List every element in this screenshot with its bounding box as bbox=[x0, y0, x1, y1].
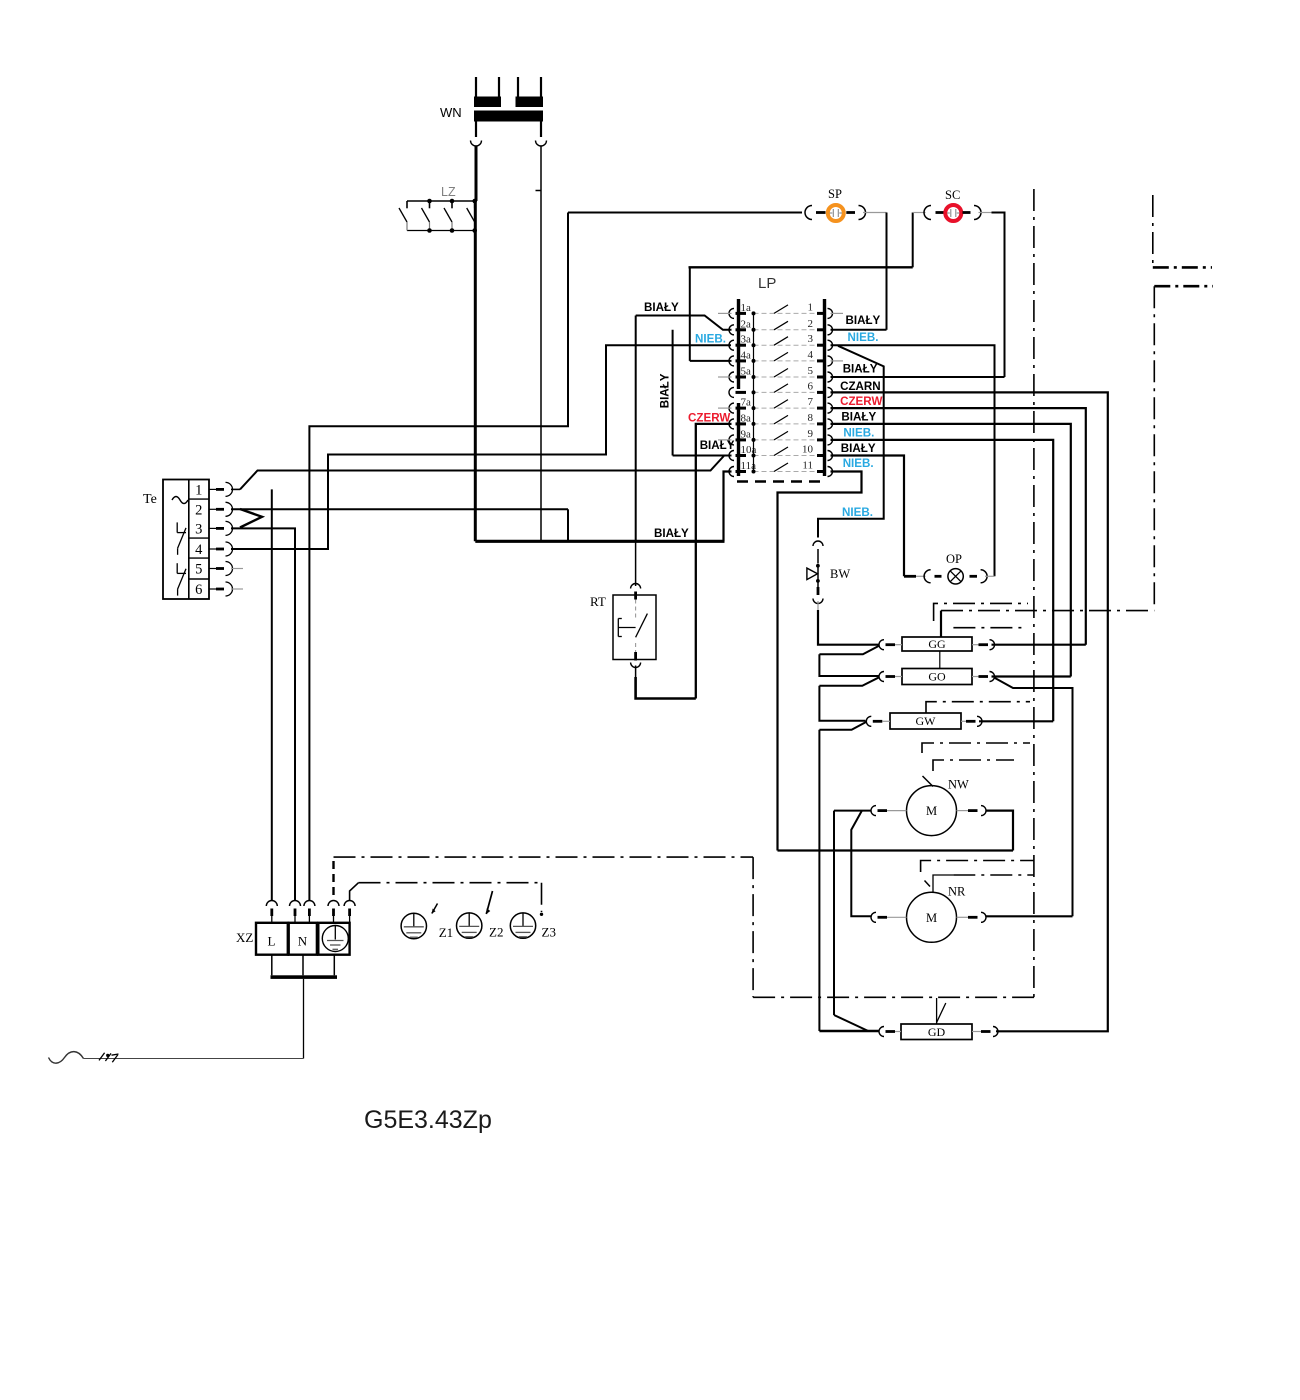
svg-text:11: 11 bbox=[802, 460, 813, 472]
svg-text:GO: GO bbox=[928, 670, 946, 684]
svg-text:G5E3.43Zp: G5E3.43Zp bbox=[364, 1106, 492, 1134]
svg-text:NR: NR bbox=[948, 885, 966, 899]
svg-text:BIAŁY: BIAŁY bbox=[843, 363, 878, 376]
svg-text:3: 3 bbox=[808, 333, 814, 345]
svg-text:Te: Te bbox=[143, 492, 157, 507]
svg-text:1a: 1a bbox=[741, 302, 752, 314]
svg-text:2a: 2a bbox=[741, 318, 752, 330]
svg-text:3: 3 bbox=[195, 521, 202, 537]
svg-text:M: M bbox=[926, 911, 937, 925]
svg-text:2: 2 bbox=[195, 502, 202, 518]
svg-text:BIAŁY: BIAŁY bbox=[846, 314, 881, 327]
svg-text:BIAŁY: BIAŁY bbox=[654, 527, 689, 540]
svg-text:CZERW: CZERW bbox=[840, 395, 882, 408]
svg-text:BIAŁY: BIAŁY bbox=[658, 373, 671, 408]
svg-text:7a: 7a bbox=[741, 397, 752, 409]
svg-text:SC: SC bbox=[945, 188, 960, 202]
svg-text:Z2: Z2 bbox=[489, 925, 503, 940]
svg-text:WN: WN bbox=[440, 105, 462, 120]
svg-text:BIAŁY: BIAŁY bbox=[644, 301, 679, 314]
svg-text:LP: LP bbox=[758, 275, 776, 292]
svg-text:9a: 9a bbox=[741, 428, 752, 440]
svg-text:N: N bbox=[298, 934, 308, 949]
svg-text:3a: 3a bbox=[741, 334, 752, 346]
svg-text:4: 4 bbox=[808, 349, 814, 361]
svg-text:CZERW: CZERW bbox=[688, 412, 730, 425]
svg-text:5: 5 bbox=[808, 365, 814, 377]
svg-text:1: 1 bbox=[808, 301, 814, 313]
svg-text:OP: OP bbox=[946, 552, 962, 566]
svg-text:NW: NW bbox=[948, 778, 969, 792]
svg-text:6: 6 bbox=[808, 380, 814, 392]
svg-text:NIEB.: NIEB. bbox=[843, 457, 874, 470]
svg-text:SP: SP bbox=[828, 187, 842, 201]
svg-text:L: L bbox=[268, 934, 276, 949]
svg-text:Z1: Z1 bbox=[439, 925, 453, 940]
svg-text:NIEB.: NIEB. bbox=[842, 506, 873, 519]
svg-text:8a: 8a bbox=[741, 412, 752, 424]
svg-text:5: 5 bbox=[195, 562, 202, 578]
svg-text:NIEB.: NIEB. bbox=[695, 333, 726, 346]
svg-text:5a: 5a bbox=[741, 366, 752, 378]
svg-text:6: 6 bbox=[195, 582, 202, 598]
svg-text:XZ: XZ bbox=[236, 930, 253, 945]
svg-text:8: 8 bbox=[808, 412, 814, 424]
svg-text:Z3: Z3 bbox=[542, 925, 556, 940]
svg-text:BIAŁY: BIAŁY bbox=[700, 439, 735, 452]
svg-text:4: 4 bbox=[195, 542, 203, 558]
svg-text:GG: GG bbox=[928, 637, 946, 651]
svg-text:NIEB.: NIEB. bbox=[843, 426, 874, 439]
svg-text:RT: RT bbox=[590, 594, 606, 609]
svg-text:BIAŁY: BIAŁY bbox=[841, 442, 876, 455]
svg-text:10: 10 bbox=[802, 444, 814, 456]
svg-text:NIEB.: NIEB. bbox=[848, 331, 879, 344]
svg-text:CZARN: CZARN bbox=[840, 380, 881, 393]
svg-text:7: 7 bbox=[808, 396, 814, 408]
svg-text:BW: BW bbox=[830, 567, 850, 581]
svg-text:9: 9 bbox=[808, 428, 814, 440]
svg-text:M: M bbox=[926, 804, 937, 818]
svg-text:BIAŁY: BIAŁY bbox=[841, 410, 876, 423]
svg-text:1: 1 bbox=[195, 482, 202, 498]
svg-text:2: 2 bbox=[808, 318, 814, 330]
svg-text:GW: GW bbox=[916, 714, 937, 728]
svg-text:GD: GD bbox=[928, 1025, 946, 1039]
svg-text:4a: 4a bbox=[741, 349, 752, 361]
svg-text:LZ: LZ bbox=[441, 185, 456, 199]
